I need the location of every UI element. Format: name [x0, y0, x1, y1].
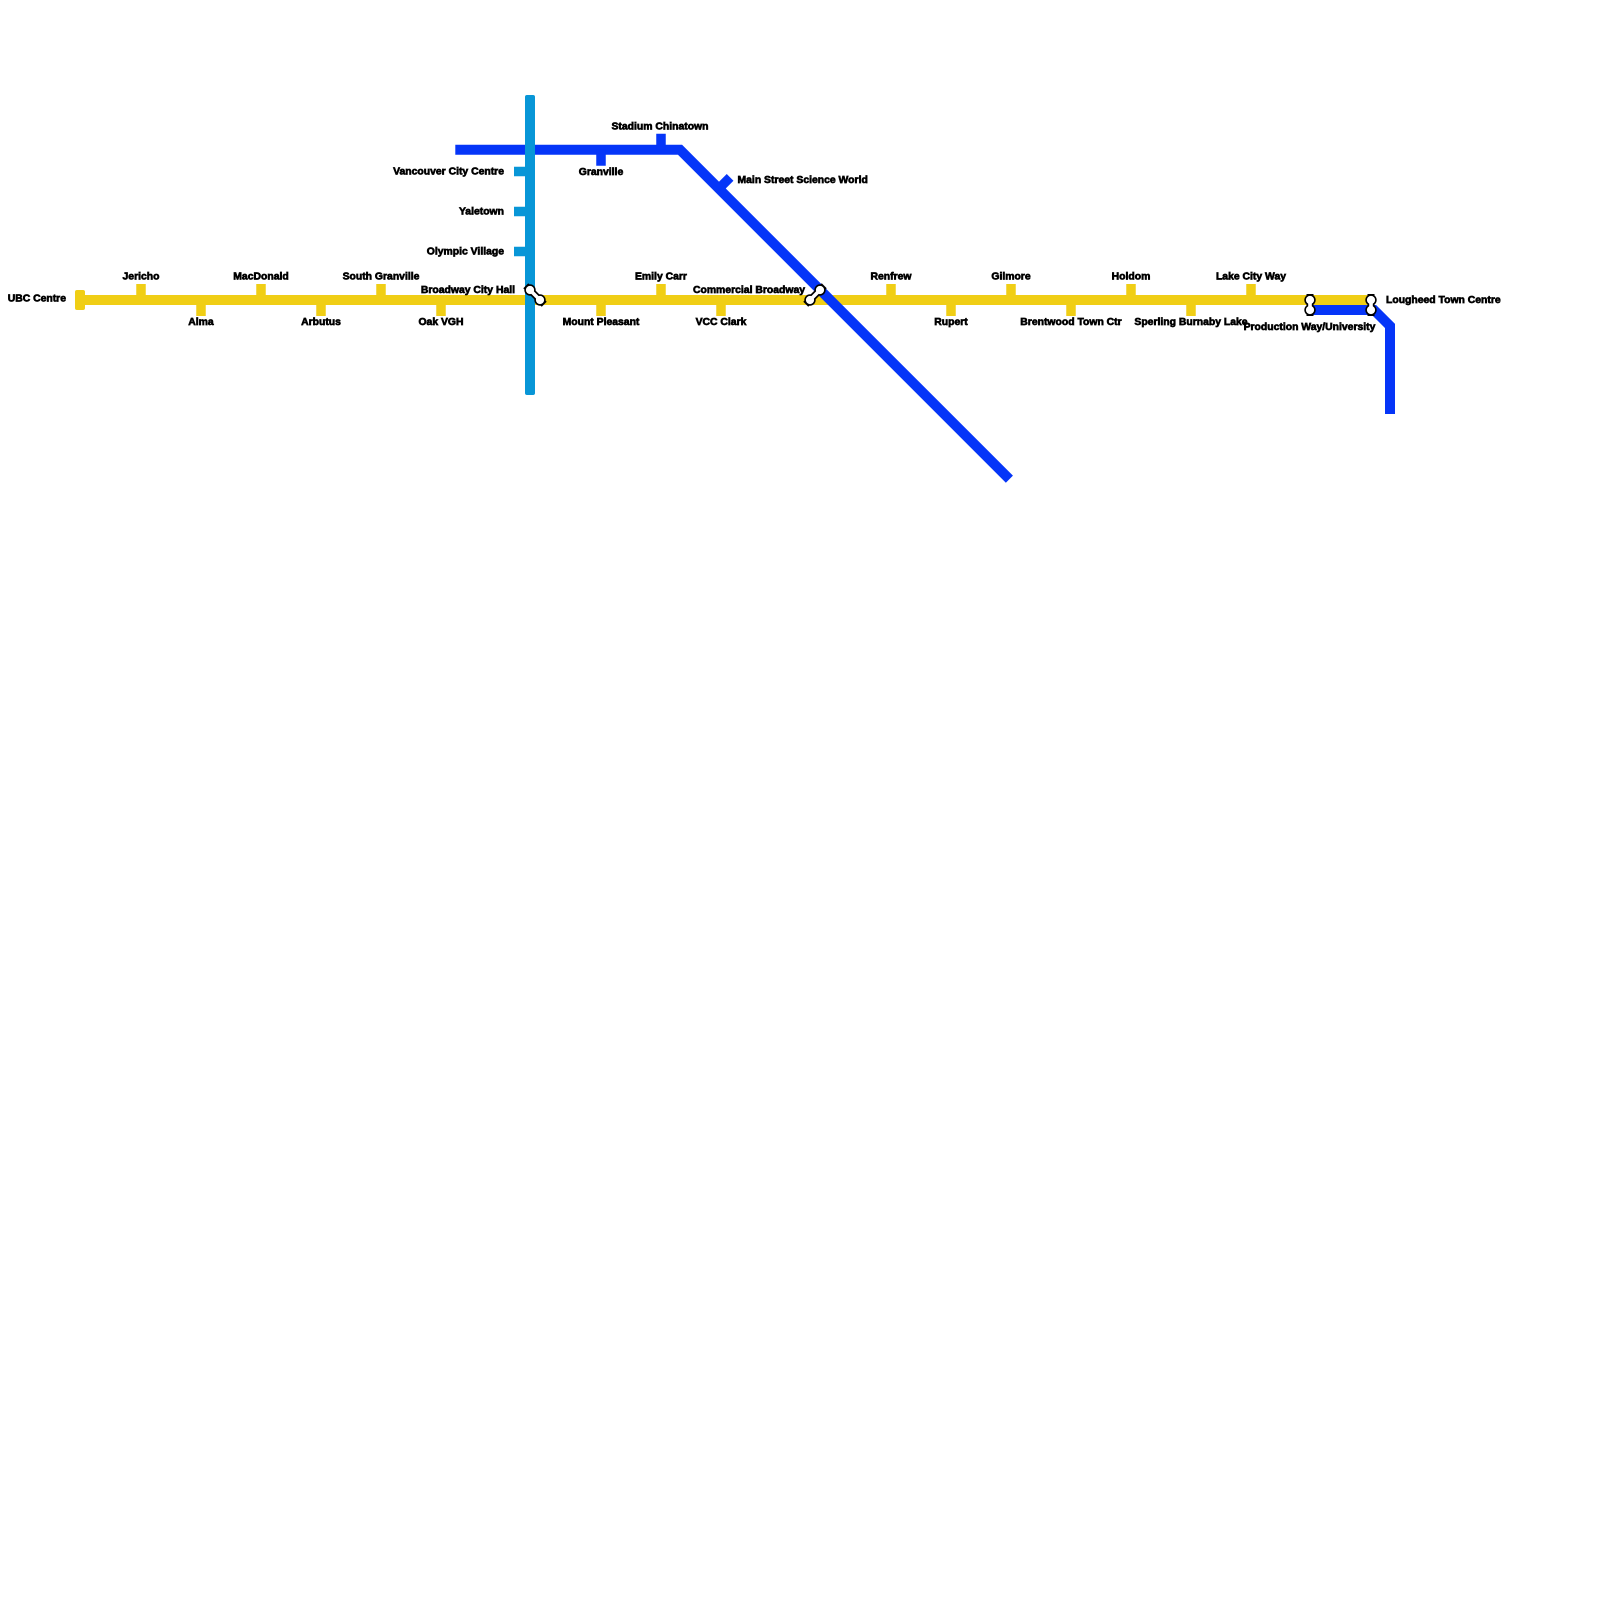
svg-text:Stadium Chinatown: Stadium Chinatown: [612, 122, 709, 133]
svg-text:Commercial Broadway: Commercial Broadway: [693, 285, 805, 296]
node: Gilmore station tick: [1006, 284, 1016, 300]
node: Commercial Broadway interchange marker: [804, 284, 825, 305]
svg-text:Brentwood Town Ctr: Brentwood Town Ctr: [1020, 317, 1121, 328]
svg-text:Gilmore: Gilmore: [991, 272, 1030, 283]
node: Main Street Science World station tick: [719, 177, 730, 188]
node: Yaletown station tick: [514, 207, 530, 217]
node: Broadway City Hall interchange marker: [524, 284, 545, 305]
wire: Expo/Millennium Line east segment to Lougheed (blue): [1307, 310, 1390, 414]
svg-text:Arbutus: Arbutus: [301, 317, 341, 328]
svg-text:Lougheed Town Centre: Lougheed Town Centre: [1386, 295, 1501, 306]
node: Holdom station tick: [1126, 284, 1136, 300]
svg-text:Yaletown: Yaletown: [459, 207, 504, 218]
svg-text:Lake City Way: Lake City Way: [1216, 272, 1286, 283]
svg-text:Mount Pleasant: Mount Pleasant: [563, 317, 640, 328]
node: Lake City Way station tick: [1246, 284, 1256, 300]
node: Emily Carr station tick: [656, 284, 666, 300]
svg-text:MacDonald: MacDonald: [233, 272, 288, 283]
svg-text:Jericho: Jericho: [123, 272, 160, 283]
node: Rupert station tick: [946, 300, 956, 316]
node: Jericho station tick: [136, 284, 146, 300]
node: UBC Centre terminal bar: [75, 290, 85, 310]
node: Lougheed Town Centre interchange marker: [1365, 294, 1376, 316]
node: Granville station tick: [596, 150, 606, 166]
node: South Granville station tick: [376, 284, 386, 300]
node: Arbutus station tick: [316, 300, 326, 316]
svg-text:Alma: Alma: [188, 317, 214, 328]
wire: Canada Line (light blue): [525, 95, 535, 395]
wire: Millennium Line Broadway trunk (yellow): [75, 295, 1372, 305]
svg-text:Oak VGH: Oak VGH: [418, 317, 463, 328]
wire: Expo Line downtown segment (blue): [455, 150, 1009, 479]
svg-text:Sperling Burnaby Lake: Sperling Burnaby Lake: [1134, 317, 1247, 328]
node: Oak VGH station tick: [436, 300, 446, 316]
svg-text:Rupert: Rupert: [934, 317, 968, 328]
svg-text:UBC Centre: UBC Centre: [8, 294, 67, 305]
svg-text:Renfrew: Renfrew: [871, 272, 913, 283]
node: Renfrew station tick: [886, 284, 896, 300]
svg-text:Holdom: Holdom: [1112, 272, 1151, 283]
node: Vancouver City Centre station tick: [514, 167, 530, 177]
svg-text:Granville: Granville: [579, 167, 624, 178]
svg-text:Broadway City Hall: Broadway City Hall: [421, 285, 515, 296]
node: Brentwood Town Ctr station tick: [1066, 300, 1076, 316]
svg-text:Vancouver City Centre: Vancouver City Centre: [393, 167, 504, 178]
node: Sperling Burnaby Lake station tick: [1186, 300, 1196, 316]
node: MacDonald station tick: [256, 284, 266, 300]
node: VCC Clark station tick: [716, 300, 726, 316]
node: Alma station tick: [196, 300, 206, 316]
node: Production Way/University interchange marker: [1304, 294, 1315, 316]
node: Olympic Village station tick: [514, 247, 530, 257]
svg-text:Main Street Science World: Main Street Science World: [738, 175, 868, 186]
svg-text:VCC Clark: VCC Clark: [696, 317, 747, 328]
svg-text:South Granville: South Granville: [343, 272, 420, 283]
node: Stadium Chinatown station tick: [656, 134, 666, 150]
node: Mount Pleasant station tick: [596, 300, 606, 316]
svg-text:Emily Carr: Emily Carr: [635, 272, 687, 283]
svg-text:Production Way/University: Production Way/University: [1244, 322, 1376, 333]
svg-text:Olympic Village: Olympic Village: [427, 247, 504, 258]
